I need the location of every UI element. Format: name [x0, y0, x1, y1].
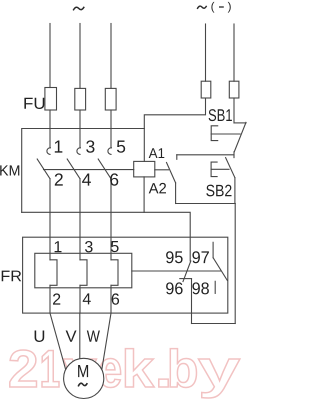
contact FR 95-96 blade	[183, 261, 191, 282]
relay FR box	[23, 237, 228, 313]
contact KM pole 2 blade	[67, 159, 80, 179]
contact KM pole 3 fixed terminal arc	[108, 148, 112, 155]
label FR thermal relay	[2, 271, 22, 282]
label ( of supply	[211, 2, 214, 13]
label minus of supply	[219, 6, 224, 8]
relay FR heaters inner box	[35, 253, 132, 287]
contact FR 95-96 seat	[180, 278, 192, 280]
contact FR 97-98 lower terminal tick	[214, 281, 216, 293]
contact KM auxiliary blade	[167, 163, 176, 183]
label ~ top right supply	[197, 6, 206, 9]
terminal U	[35, 330, 45, 342]
pin 4 FR	[83, 293, 91, 304]
heater FR pole 2 element	[80, 260, 87, 286]
wire motor lead V	[79, 313, 81, 359]
wire KM pole 2 lower	[79, 179, 81, 260]
wire FR pole 1 lower	[49, 285, 51, 313]
button SB2 actuator rod	[211, 168, 229, 170]
label SB2 start button	[206, 185, 231, 197]
pin 1 FR	[55, 241, 62, 252]
fuse FU control rail A	[201, 81, 211, 98]
pin 4 KM	[82, 174, 91, 186]
pin 6 KM	[110, 173, 118, 185]
wire FR pole 3 lower	[110, 285, 112, 313]
contact KM pole 1 fixed terminal arc	[47, 148, 51, 155]
wire FR contact 96 down	[191, 279, 193, 324]
watermark 21vek.by	[10, 350, 37, 387]
node 1 left terminal tick	[176, 155, 178, 160]
wire L3 fuse to KM contact 5	[110, 110, 112, 148]
schematic wiring group	[22, 24, 246, 399]
label ~ top left supply	[73, 7, 84, 11]
wire motor lead U	[50, 313, 66, 369]
button SB2 blade	[226, 158, 235, 178]
pin 3 FR	[85, 241, 93, 252]
wire motor lead W	[102, 313, 111, 369]
pin 6 FR	[112, 293, 119, 304]
button SB1 blade	[234, 122, 246, 152]
contact KM pole 1 blade	[37, 159, 50, 179]
pin 1 KM	[55, 141, 63, 153]
terminal W	[87, 330, 100, 341]
wire control rail B top	[233, 24, 235, 81]
wire KM box bottom edge / coil A2 net to FR contact 95	[22, 212, 191, 261]
wire control rail A to coil A1	[144, 98, 205, 161]
button SB1 actuator rod	[211, 133, 240, 135]
fuse FU control rail B	[229, 81, 239, 98]
wire KM pole 1 lower	[49, 179, 51, 260]
pin 96 FR contact	[166, 282, 183, 294]
wire right rail down	[234, 204, 236, 324]
terminal V	[66, 330, 77, 341]
pin 5 FR	[111, 241, 119, 252]
node 1 wire SB1 bottom to aux contact	[177, 154, 234, 156]
wire L1 fuse to KM contact 1	[49, 110, 51, 148]
label SB1 stop button	[209, 109, 232, 121]
pin 95 FR contact	[166, 251, 183, 263]
label A2 coil terminal	[149, 183, 166, 193]
label M motor	[78, 365, 88, 377]
wire phase L1 top	[49, 24, 51, 88]
button SB2 actuator bracket	[211, 162, 217, 177]
wire coil A2 bottom	[143, 177, 145, 212]
pin 2 FR	[53, 293, 60, 304]
wire control rail B to SB1	[233, 98, 235, 123]
wire FR heaters to contact 95	[132, 270, 221, 272]
wire phase L3 top	[110, 24, 112, 89]
wire coil right stub	[155, 169, 169, 171]
pin 98 FR contact	[192, 282, 209, 294]
button SB1 lower terminal tick	[233, 152, 235, 158]
pin 5 KM	[117, 141, 125, 153]
label ~ motor	[78, 383, 87, 386]
label A1 coil terminal	[149, 148, 165, 158]
button SB1 actuator bracket	[211, 126, 218, 141]
wire KM pole 3 lower	[110, 179, 112, 260]
contactor KM box left and top edges	[22, 129, 145, 213]
heater FR pole 3 element	[111, 260, 118, 286]
pin 2 KM	[55, 173, 63, 185]
contact KM pole 2 fixed terminal arc	[77, 148, 81, 155]
label FU fuses	[24, 98, 44, 109]
wire L2 fuse to KM contact 3	[79, 110, 81, 148]
button SB1 top jog	[234, 122, 246, 124]
wire aux contact bottom to node 2	[175, 183, 177, 204]
wire phase L2 top	[79, 24, 81, 89]
label ) of supply	[228, 2, 231, 13]
coil KM A1-A2	[134, 161, 155, 177]
pin 97 FR contact	[192, 251, 209, 263]
heater FR pole 1 element	[50, 260, 57, 286]
pin 3 KM	[86, 140, 94, 152]
wire KM linkage line to coil	[44, 169, 134, 171]
contact FR 97-98 upper terminal	[212, 242, 214, 257]
contact KM pole 3 blade	[98, 159, 111, 179]
wire SB2 bottom to node 2	[234, 178, 236, 204]
contact FR 97-98 blade	[213, 258, 227, 281]
fuse FU pole 2	[75, 88, 86, 110]
node 2 wire	[176, 203, 236, 205]
wire FR pole 2 lower	[79, 285, 81, 313]
label KM contactor	[0, 165, 19, 175]
motor M circle	[64, 358, 104, 398]
wire control rail A top	[205, 24, 207, 81]
fuse FU pole 1	[45, 88, 57, 111]
wire bottom return horizontal	[192, 323, 236, 325]
fuse FU pole 3	[105, 88, 116, 110]
